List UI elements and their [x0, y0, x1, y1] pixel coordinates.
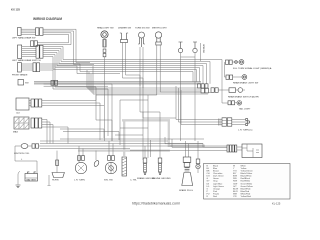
ground wire	[18, 172, 20, 185]
wire verticals through band	[87, 70, 201, 88]
ground	[16, 185, 21, 188]
horn ground	[48, 175, 51, 185]
wire	[143, 47, 176, 118]
legend box	[204, 164, 291, 200]
maze wire	[120, 100, 148, 145]
svg-text:https://tradebikemanuals.com/: https://tradebikemanuals.com/	[132, 201, 180, 205]
magneto block U3	[14, 117, 29, 129]
svg-text:L.H. TURN (C): L.H. TURN (C)	[238, 130, 253, 132]
wire	[37, 33, 71, 45]
maze wire	[44, 84, 112, 141]
svg-text:TURN SIG SW: TURN SIG SW	[135, 28, 151, 30]
svg-text:Light Blue: Light Blue	[213, 182, 223, 185]
rear brake switch R3	[229, 88, 245, 93]
maze corner wire	[172, 139, 227, 147]
svg-text:Blue/White: Blue/White	[241, 187, 252, 190]
harness band E	[169, 145, 205, 147]
svg-text:LEFT HANDLEBAR SW: LEFT HANDLEBAR SW	[12, 37, 36, 40]
wire	[123, 43, 144, 89]
rear connector R5	[219, 118, 250, 126]
RH turn signal R1	[226, 60, 244, 65]
svg-text:KL-125: KL-125	[272, 201, 281, 205]
wire	[29, 103, 100, 140]
harness band main	[34, 82, 201, 84]
bottom bus wire 3	[40, 144, 227, 148]
connector J2 multi-pin	[18, 45, 44, 59]
fuse F2	[143, 146, 147, 174]
spark plug M1	[182, 141, 193, 186]
maze corner wire	[63, 132, 119, 141]
svg-text:IGN. SW: IGN. SW	[104, 180, 114, 182]
svg-text:Green: Green	[213, 177, 220, 180]
wire	[40, 66, 120, 74]
wire	[42, 125, 53, 144]
wire bus 5	[43, 55, 200, 82]
horn H1	[52, 151, 64, 178]
ignition switch S5	[105, 141, 116, 174]
wire bus 6	[43, 57, 197, 82]
wire	[42, 122, 50, 144]
wire bus 1	[43, 47, 222, 60]
wire	[29, 95, 148, 101]
CDI unit U2	[16, 98, 29, 110]
maze corner wire	[165, 137, 203, 144]
bottom bus wire 5	[40, 148, 130, 150]
svg-text:Green/Yellow: Green/Yellow	[241, 185, 254, 188]
wire	[40, 70, 108, 136]
turn signal switch S3	[138, 32, 145, 47]
wire	[37, 34, 69, 42]
svg-text:Y/R: Y/R	[233, 196, 237, 198]
headlight L1	[101, 31, 108, 57]
wire	[43, 31, 94, 65]
connector J1a	[31, 41, 34, 47]
svg-text:HORN: HORN	[52, 180, 59, 182]
svg-text:SPARK PLUG: SPARK PLUG	[179, 189, 193, 192]
svg-text:White/Red: White/Red	[241, 192, 252, 195]
svg-text:HEADLIGHT SW: HEADLIGHT SW	[97, 27, 115, 30]
svg-text:REAR BRAKE SWITCH (B) RR: REAR BRAKE SWITCH (B) RR	[228, 96, 259, 99]
svg-text:ENGINE GROUND: ENGINE GROUND	[152, 178, 171, 180]
maze wire	[115, 134, 143, 136]
wire	[91, 74, 201, 92]
wire cluster to R3	[218, 89, 229, 91]
indicator lamp L3	[178, 42, 182, 53]
wire	[148, 45, 157, 95]
svg-text:Brown: Brown	[213, 170, 220, 173]
svg-text:Dark Green: Dark Green	[213, 175, 225, 178]
wire	[89, 72, 201, 90]
connector on band	[51, 80, 54, 85]
wire from J3	[40, 64, 193, 82]
svg-text:Light Green: Light Green	[213, 185, 225, 188]
indicator lamp L4	[193, 42, 197, 53]
wire R5 feed 3	[181, 90, 222, 125]
svg-text:SPEEDO: SPEEDO	[202, 44, 204, 53]
maze wire	[159, 112, 161, 158]
svg-text:IGNITION COIL: IGNITION COIL	[14, 153, 30, 155]
maze wire	[44, 85, 108, 87]
wire	[140, 47, 160, 112]
regulator RG1	[122, 157, 127, 176]
maze wire	[120, 127, 148, 129]
bottom bus wire 1	[60, 138, 204, 140]
svg-text:METER LIGHT: METER LIGHT	[152, 28, 167, 30]
svg-text:Yellow/Green: Yellow/Green	[241, 170, 254, 173]
connector J5	[31, 99, 42, 107]
wire	[180, 53, 182, 141]
right bundle vertical	[221, 60, 223, 104]
svg-text:TAIL LIGHT: TAIL LIGHT	[239, 107, 251, 110]
svg-text:WIRING DIAGRAM: WIRING DIAGRAM	[33, 17, 62, 21]
wire	[160, 45, 201, 92]
connector J1 left handlebar switch	[18, 28, 44, 36]
fuse F3	[158, 158, 162, 174]
svg-text:White: White	[241, 164, 247, 167]
wire	[42, 127, 68, 144]
connector J3	[18, 63, 40, 73]
small lamp P1	[93, 151, 100, 168]
svg-text:Black/White: Black/White	[241, 175, 253, 178]
wire	[42, 120, 47, 144]
svg-text:Purple: Purple	[213, 192, 220, 195]
svg-text:LEFT HANDLEBAR SWITCH: LEFT HANDLEBAR SWITCH	[12, 59, 41, 62]
harness band D	[168, 120, 170, 147]
connector J6	[31, 118, 42, 128]
component N1	[196, 141, 200, 173]
harness band B	[122, 119, 170, 121]
wire R5 feed 1	[176, 86, 222, 120]
band edge lines	[34, 82, 201, 84]
wire	[29, 105, 104, 107]
bottom bus wire 4	[39, 145, 227, 147]
svg-text:R.H. TURN SIGNAL LIGHT (GREEN): R.H. TURN SIGNAL LIGHT (GREEN) A	[233, 67, 272, 70]
wire bus 3	[43, 51, 207, 84]
ignition coil T1	[21, 144, 38, 149]
svg-text:FRONT BRAKE: FRONT BRAKE	[12, 73, 28, 76]
small vertical label	[200, 43, 202, 61]
meter light L2	[155, 32, 161, 45]
svg-text:REAR BRAKE LIGHT SW: REAR BRAKE LIGHT SW	[233, 82, 259, 85]
maze wire	[147, 95, 149, 158]
wire	[40, 68, 112, 141]
wire loop J1 to J1a	[43, 29, 90, 62]
bottom bus wire 6	[130, 150, 227, 152]
right bundle vertical 2	[224, 62, 226, 77]
maze wire	[142, 112, 144, 160]
battery feed wire	[15, 146, 37, 174]
svg-text:DIMMER SW: DIMMER SW	[118, 28, 132, 30]
harness band regulator drop	[123, 122, 125, 157]
wire	[93, 66, 211, 94]
flasher relay F1	[75, 146, 86, 174]
coil feed wire	[15, 145, 21, 147]
svg-text:MAG: MAG	[13, 131, 18, 134]
bottom bus wire 2	[40, 140, 168, 142]
tail light R4	[222, 101, 242, 106]
svg-text:Orange: Orange	[213, 187, 221, 190]
legend text rows	[207, 164, 254, 198]
svg-text:Chocolate: Chocolate	[213, 172, 223, 175]
wire	[126, 43, 141, 87]
svg-text:KX 125: KX 125	[11, 7, 20, 11]
component U1 clutch switch	[18, 80, 24, 86]
maze wire	[150, 140, 152, 157]
svg-text:CDI: CDI	[16, 113, 20, 115]
svg-text:Yellow/Red: Yellow/Red	[241, 196, 252, 198]
dimmer switch S2	[120, 33, 128, 43]
svg-text:L.H. TURN: L.H. TURN	[74, 180, 85, 182]
wire bracket	[181, 53, 196, 141]
starter relay R6	[227, 144, 262, 158]
battery B1	[25, 172, 38, 181]
harness connector cluster	[198, 84, 219, 93]
maze corner wire	[60, 129, 104, 138]
svg-text:Green/White: Green/White	[241, 182, 254, 185]
wire headlight down	[104, 57, 106, 141]
harness band C	[78, 149, 170, 151]
svg-text:Red/White: Red/White	[241, 180, 252, 183]
wire bus 2	[43, 49, 210, 84]
wire bus 4	[43, 53, 203, 84]
brake light switch R2	[225, 75, 247, 80]
wire R5 feed 2	[179, 88, 223, 122]
svg-text:BATTERY: BATTERY	[27, 178, 37, 181]
